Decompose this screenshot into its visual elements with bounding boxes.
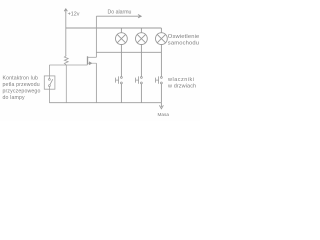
reed switch contacts <box>49 79 51 81</box>
svg-text:Masa: Masa <box>158 112 170 117</box>
wire top bus <box>66 27 162 29</box>
lamp L3 <box>156 28 168 77</box>
svg-text:Do alarmu: Do alarmu <box>108 10 132 16</box>
wire +12V vertical <box>65 13 67 56</box>
svg-text:w drzwiach: w drzwiach <box>167 83 196 89</box>
power +12V arrow <box>64 9 67 13</box>
lamp L1 <box>116 28 128 77</box>
wire reed box lead <box>48 76 50 103</box>
wire alarm arrow <box>96 15 141 18</box>
svg-text:+12v: +12v <box>68 11 80 17</box>
wire collector to alarm corner <box>95 16 97 57</box>
transistor Q1 base bar <box>87 56 89 64</box>
ground arrow Masa <box>159 103 163 109</box>
svg-text:Oswietlenie: Oswietlenie <box>168 34 200 40</box>
svg-text:Kontaktron lub: Kontaktron lub <box>3 76 39 82</box>
switch S2 <box>136 76 143 102</box>
svg-text:wlaczniki: wlaczniki <box>167 77 195 83</box>
switch S3 <box>156 76 163 102</box>
svg-text:do lampy: do lampy <box>3 95 26 101</box>
wire bottom bus <box>49 102 161 104</box>
wire node B horizontal <box>49 64 87 66</box>
reed switch box <box>44 76 55 89</box>
reed switch lever <box>50 79 53 85</box>
svg-text:samochodu: samochodu <box>168 40 199 46</box>
resistor R1 <box>64 56 68 65</box>
wire lamp-bottom rail <box>96 51 161 53</box>
wire node B to ground <box>65 65 67 103</box>
transistor Q1 emitter stub with arrow <box>88 62 97 65</box>
svg-text:petla przewodu: petla przewodu <box>3 82 40 88</box>
wire reed box riser <box>48 65 50 76</box>
svg-text:przyczepowego: przyczepowego <box>3 88 41 94</box>
wire emitter to ground <box>95 63 97 102</box>
lamp L2 <box>136 28 148 77</box>
switch S1 <box>116 76 123 102</box>
transistor Q1 collector stub <box>88 56 97 58</box>
